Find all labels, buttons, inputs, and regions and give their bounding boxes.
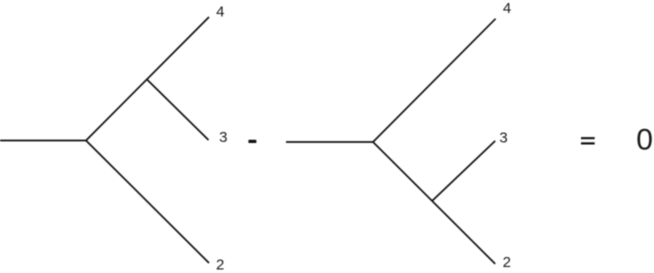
svg-text:2: 2	[216, 256, 224, 273]
svg-text:4: 4	[503, 0, 511, 17]
svg-text:4: 4	[216, 3, 224, 20]
svg-text:2: 2	[503, 254, 511, 271]
svg-text:0: 0	[636, 124, 653, 157]
svg-text:3: 3	[219, 129, 227, 146]
svg-text:3: 3	[499, 129, 507, 146]
